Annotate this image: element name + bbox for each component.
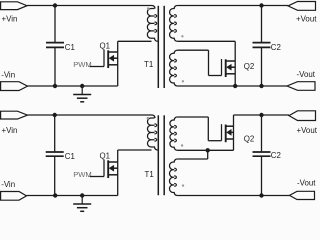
- label -Vin (bottom circuit): [1, 180, 15, 189]
- node junction secondary A bottom / winding B tap: [206, 148, 210, 152]
- transformer T1 primary winding (top circuit): [147, 6, 157, 42]
- svg-text:+Vin: +Vin: [2, 126, 18, 135]
- wire secondary A bottom to Q2 source: [177, 149, 233, 151]
- phase dot secondary A (bottom circuit): [181, 144, 183, 146]
- ground symbol (top circuit): [73, 86, 91, 102]
- input connector -Vin (top circuit): [1, 82, 28, 91]
- wire Q1 drain to T1 primary bottom (bottom): [118, 149, 152, 151]
- label Q2 (top circuit): [244, 62, 255, 71]
- label T1 (top circuit): [144, 60, 153, 69]
- capacitor C1 (top circuit): [46, 6, 64, 87]
- label +Vout (top circuit): [296, 15, 317, 24]
- capacitor C2 (bottom circuit): [253, 115, 271, 196]
- ground symbol (bottom circuit): [73, 196, 91, 212]
- label Q2 (bottom circuit): [244, 134, 255, 143]
- label -Vin (top circuit): [1, 71, 15, 80]
- output connector +Vout (top circuit): [288, 2, 316, 11]
- svg-text:T1: T1: [144, 60, 153, 69]
- transistor Q2 (top circuit): [222, 59, 236, 77]
- label PWM (top circuit): [73, 60, 92, 69]
- node junction +Vin rail / C1 top (bottom): [53, 113, 57, 117]
- input connector +Vin (top circuit): [1, 2, 27, 10]
- svg-text:Q1: Q1: [100, 42, 111, 51]
- phase dot secondary B (top circuit): [182, 80, 184, 82]
- wire bottom rail -Vin to Q1 source: [28, 85, 118, 87]
- phase dot primary (top circuit): [147, 7, 150, 10]
- svg-text:-Vout: -Vout: [297, 179, 316, 188]
- transformer T1 secondary winding A (top circuit): [170, 6, 178, 42]
- wire bottom rail secondary B to -Vout: [177, 85, 287, 87]
- input connector +Vin (bottom circuit): [1, 111, 28, 119]
- label T1 (bottom circuit): [145, 170, 154, 179]
- wire PWM to Q1 gate (bottom): [90, 176, 105, 178]
- output connector -Vout (bottom circuit): [290, 191, 315, 199]
- wire secondary A top to Q2 gate branch: [177, 117, 221, 141]
- transformer T1 secondary winding B (bottom circuit): [169, 159, 177, 196]
- wire Q1 drain-source bus (bottom): [117, 150, 119, 196]
- capacitor C1 (bottom circuit): [46, 115, 64, 196]
- wire top rail from +Vin to T1 primary: [27, 5, 152, 7]
- transformer T1 secondary winding A (bottom circuit): [170, 117, 177, 150]
- wire top rail from +Vin to T1 primary (bottom): [28, 114, 153, 116]
- svg-text:C2: C2: [271, 151, 281, 160]
- transistor Q1 (top circuit): [104, 50, 118, 68]
- svg-text:Q2: Q2: [244, 62, 255, 71]
- label +Vout (bottom circuit): [297, 126, 318, 135]
- label C2 (top circuit): [271, 43, 281, 52]
- transformer core (top circuit): [158, 6, 164, 88]
- wire Q2 bus to bottom rail: [234, 41, 236, 86]
- node junction +Vout rail / C2 top (bottom): [259, 113, 263, 117]
- label Q1 (bottom circuit): [100, 152, 111, 161]
- label -Vout (bottom circuit): [297, 179, 316, 188]
- wire secondary A bottom to Q2 drain: [177, 40, 235, 42]
- input connector -Vin (bottom circuit): [1, 192, 27, 201]
- svg-text:C1: C1: [65, 152, 75, 161]
- svg-text:PWM: PWM: [73, 60, 92, 69]
- svg-text:-Vout: -Vout: [297, 70, 316, 79]
- wire PWM to Q1 gate: [90, 66, 105, 68]
- node junction C2 bottom / bottom rail: [259, 84, 263, 88]
- label Q1 (top circuit): [100, 42, 111, 51]
- label C1 (top circuit): [65, 43, 75, 52]
- wire top rail to +Vout (bottom): [234, 114, 290, 116]
- transformer T1 secondary winding B (top circuit): [170, 50, 178, 86]
- transformer T1 primary winding (bottom circuit): [147, 115, 157, 150]
- svg-text:-Vin: -Vin: [1, 180, 15, 189]
- label +Vin (top circuit): [2, 15, 18, 24]
- svg-text:+Vin: +Vin: [2, 15, 18, 24]
- node junction ground tap (bottom): [80, 193, 84, 197]
- label PWM (bottom circuit): [73, 170, 92, 179]
- wire +Vout rail to Q2 drain: [233, 115, 235, 150]
- label C1 (bottom circuit): [65, 152, 75, 161]
- svg-text:-Vin: -Vin: [1, 71, 15, 80]
- wire Q2 gate to secondary B top: [177, 50, 221, 75]
- transistor Q1 (bottom circuit): [104, 160, 118, 178]
- output connector +Vout (bottom circuit): [289, 111, 316, 121]
- transistor Q2 (bottom circuit): [222, 124, 234, 142]
- svg-text:+Vout: +Vout: [297, 126, 318, 135]
- node junction +Vin rail / C1 top: [53, 3, 57, 7]
- node junction -Vin rail / C1 bottom (bottom): [53, 193, 57, 197]
- node junction +Vout rail / C2 top: [259, 3, 263, 7]
- phase dot secondary B (bottom circuit): [182, 184, 184, 186]
- svg-text:PWM: PWM: [73, 170, 92, 179]
- svg-text:T1: T1: [145, 170, 154, 179]
- label +Vin (bottom circuit): [2, 126, 18, 135]
- label -Vout (top circuit): [297, 70, 316, 79]
- phase dot primary (bottom circuit): [147, 117, 150, 120]
- label C2 (bottom circuit): [271, 151, 281, 160]
- svg-text:Q1: Q1: [100, 152, 111, 161]
- svg-text:+Vout: +Vout: [296, 15, 317, 24]
- wire bottom rail secondary B to -Vout (bottom): [177, 195, 289, 197]
- phase dot secondary A (top circuit): [181, 35, 183, 37]
- svg-text:C2: C2: [271, 43, 281, 52]
- capacitor C2 (top circuit): [253, 6, 271, 87]
- node junction ground tap: [80, 84, 84, 88]
- node junction Q2 source / bottom rail: [233, 84, 237, 88]
- wire bottom rail -Vin to Q1 source (bottom): [27, 195, 118, 197]
- node junction -Vin rail / C1 bottom: [53, 84, 57, 88]
- transformer core (bottom circuit): [158, 115, 164, 195]
- wire Q1 drain to T1 primary bottom: [118, 40, 152, 42]
- wire secondary A top to +Vout: [177, 5, 288, 7]
- svg-text:C1: C1: [65, 43, 75, 52]
- output connector -Vout (top circuit): [287, 82, 315, 91]
- node junction C2 bottom / bottom rail (bottom): [259, 193, 263, 197]
- svg-text:Q2: Q2: [244, 134, 255, 143]
- wire winding B top branch: [177, 150, 208, 159]
- wire Q1 drain-source bus: [117, 41, 119, 86]
